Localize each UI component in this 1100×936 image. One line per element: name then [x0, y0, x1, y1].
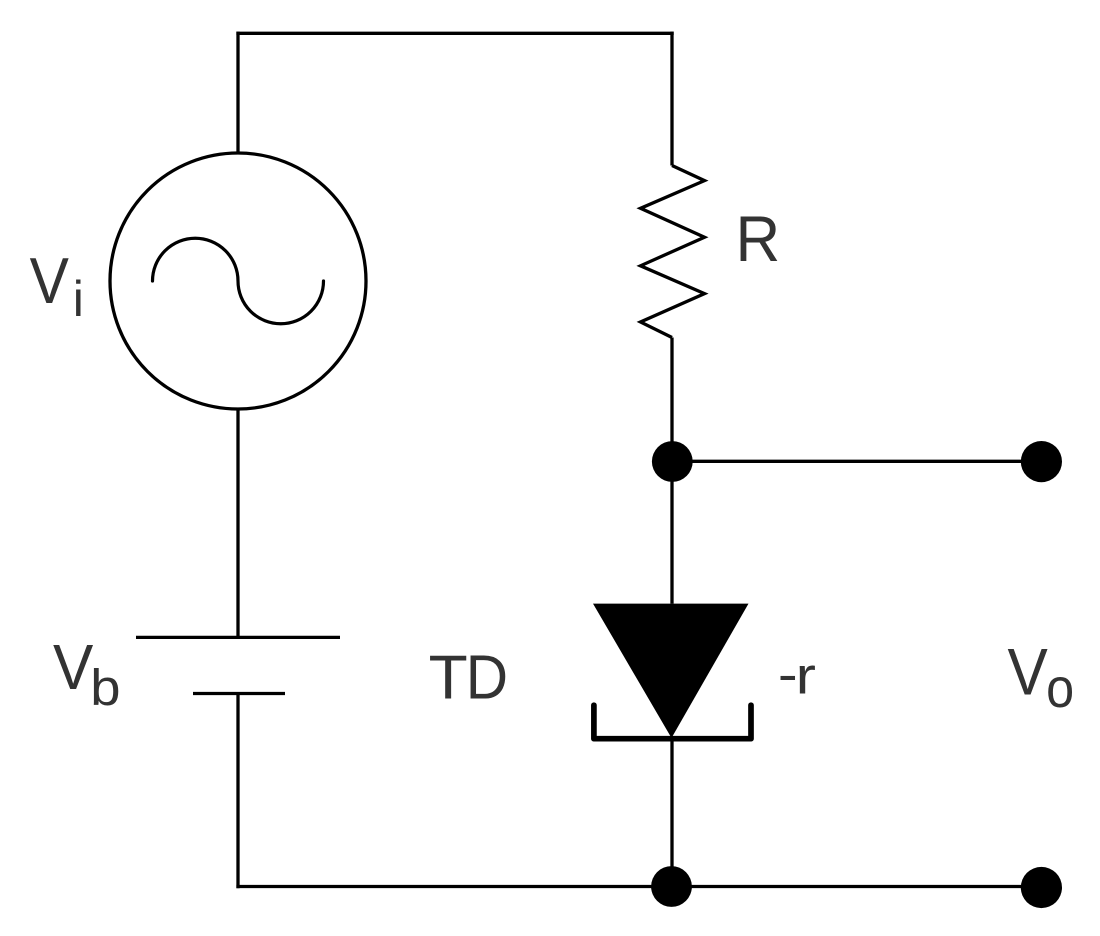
wire source to battery [236, 409, 239, 637]
node junction upper [652, 441, 693, 482]
svg-text:D: D [466, 643, 508, 712]
svg-text:R: R [736, 202, 781, 275]
node junction lower [651, 866, 692, 907]
svg-text:r: r [796, 647, 816, 705]
battery Vb bottom plate [193, 692, 285, 695]
AC source Vi circle [110, 153, 366, 409]
svg-text:V: V [30, 245, 69, 317]
terminal output top [1021, 441, 1062, 482]
wire node to output top [672, 460, 1041, 463]
wire bottom horizontal [236, 885, 1041, 888]
svg-text:o: o [1046, 656, 1074, 719]
wire battery to bottom [236, 694, 239, 889]
wire top horizontal [236, 32, 673, 35]
terminal output bottom [1021, 867, 1062, 908]
AC source sine wave [153, 238, 324, 323]
tunnel diode TD triangle [593, 604, 749, 738]
resistor R [641, 166, 705, 338]
svg-text:b: b [90, 659, 120, 716]
wire diode to bottom node [670, 739, 673, 887]
svg-text:T: T [429, 643, 468, 712]
tunnel diode cathode bracket [594, 705, 751, 739]
wire resistor to node [670, 338, 673, 604]
svg-text:V: V [53, 631, 94, 703]
wire left top vertical [236, 32, 239, 154]
wire right top vertical [670, 32, 673, 166]
svg-text:i: i [73, 271, 84, 327]
svg-text:V: V [1008, 635, 1048, 709]
battery Vb top plate [136, 636, 340, 639]
